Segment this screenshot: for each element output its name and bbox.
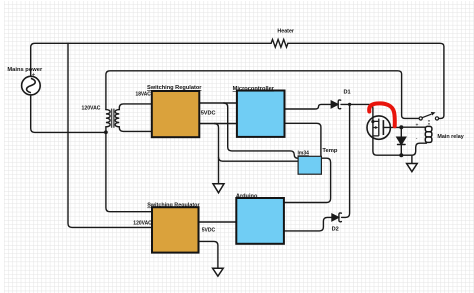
wire: regulator 1 5VDC output to microcontroller pin 1 — [199, 102, 237, 104]
wire: transformer primary top to relay switch left contact — [106, 71, 419, 119]
junction dot: mains/transformer primary — [104, 130, 108, 134]
diode D2 — [332, 214, 339, 221]
transformer T1 secondary coil — [115, 110, 119, 127]
wire: transformer secondary bottom to regulator 1 — [119, 127, 152, 132]
wire: ground branch down from lower rail — [215, 124, 219, 184]
wire: branch from top wire down left side to regulator 2 input — [68, 43, 152, 227]
transformer T1 core — [112, 109, 114, 127]
svg-text:D1: D1 — [344, 90, 351, 96]
AC source: Mains power — [22, 76, 41, 95]
wire: regulator 1 lower output to microcontroller pin 2 — [199, 123, 237, 125]
svg-text:+: + — [32, 73, 36, 79]
wire: ground rail branch to lm34 lower pin — [219, 157, 299, 161]
heater R (resistor zigzag) — [271, 39, 288, 47]
ground symbol G2 — [213, 268, 224, 276]
svg-text:lm34: lm34 — [298, 150, 310, 156]
diode D2 cathode bar — [339, 213, 342, 222]
junction dot: drain node — [399, 125, 403, 129]
flyback diode across relay coil — [397, 127, 406, 155]
wire: 5VDC branch down to lm34 power pin — [224, 103, 299, 158]
wire: transformer primary bottom down to regulator 2 input — [106, 127, 152, 212]
wire: microcontroller pin to lm34 top — [285, 123, 321, 156]
switching regulator U2 box — [152, 207, 199, 252]
MOSFET Q1 body — [367, 116, 390, 139]
svg-text:5VDC: 5VDC — [202, 228, 215, 234]
svg-text:+: + — [416, 122, 419, 128]
svg-text:Switching Regulator: Switching Regulator — [147, 85, 202, 91]
junction dot: source rail node — [399, 153, 403, 157]
svg-text:D2: D2 — [332, 227, 339, 233]
wire: transformer secondary top (18VAC) to regulator 1 — [119, 104, 152, 110]
wire: regulator 2 5VDC output to Arduino — [199, 221, 237, 223]
Arduino U4 box — [236, 198, 284, 244]
wire: microcontroller output to D1 anode — [285, 104, 332, 109]
relay switch contacts — [419, 117, 439, 120]
svg-text:Temp: Temp — [322, 148, 338, 154]
svg-text:18VAC: 18VAC — [136, 92, 151, 98]
ground symbol G1 — [213, 184, 224, 193]
diode D1 — [331, 101, 338, 108]
relay coil L1 — [425, 126, 432, 142]
ground symbol G3 — [407, 164, 418, 172]
svg-text:120VAC: 120VAC — [133, 221, 152, 227]
junction dot: D1 cathode node — [348, 103, 351, 106]
svg-text:Microcontroller: Microcontroller — [233, 86, 275, 92]
lm34 U5 box — [298, 156, 321, 174]
svg-text:5VDC: 5VDC — [201, 111, 216, 117]
wire: D1 cathode to junction and MOSFET gate, down to source rail — [341, 104, 426, 155]
wire: D2 cathode up to D1 junction — [342, 104, 350, 217]
diode D1 cathode bar — [338, 100, 341, 109]
wire: ground stub G3 — [411, 155, 413, 163]
MOSFET Q1 internals — [373, 119, 384, 136]
switching regulator U1 box — [152, 91, 200, 137]
svg-text:Main relay: Main relay — [437, 134, 464, 140]
relay actuator dashed link — [428, 120, 430, 125]
transformer T1 primary coil — [106, 110, 110, 127]
wire: lm34 Temp output down to Arduino pin 1 — [284, 158, 331, 202]
wire: mains bottom to transformer primary junction — [31, 95, 106, 132]
microcontroller U3 box — [237, 91, 285, 137]
svg-text:Switching Regulator: Switching Regulator — [147, 203, 200, 209]
junction dot at MOSFET gate — [371, 120, 374, 123]
wire: MOSFET drain to relay coil plus node — [383, 126, 426, 128]
relay switch lever with arrow — [422, 114, 431, 118]
svg-text:Mains power: Mains power — [7, 67, 43, 73]
wire: regulator 2 ground output down to ground symbol G2 — [199, 241, 218, 268]
svg-text:Heater: Heater — [277, 28, 294, 34]
wire: Arduino pin 2 to D2 anode — [284, 217, 332, 231]
svg-text:Arduino: Arduino — [236, 193, 258, 199]
svg-text:120VAC: 120VAC — [82, 105, 101, 111]
wire: mains top to heater to right side down to relay switch right contact — [31, 43, 444, 118]
red annotation arc — [369, 103, 395, 126]
